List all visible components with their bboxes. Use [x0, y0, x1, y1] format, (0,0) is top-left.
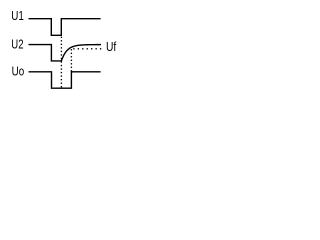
svg-text:U1: U1: [11, 8, 24, 23]
svg-text:U2: U2: [11, 36, 23, 51]
svg-text:Uf: Uf: [106, 39, 117, 54]
svg-text:Uo: Uo: [12, 64, 25, 79]
